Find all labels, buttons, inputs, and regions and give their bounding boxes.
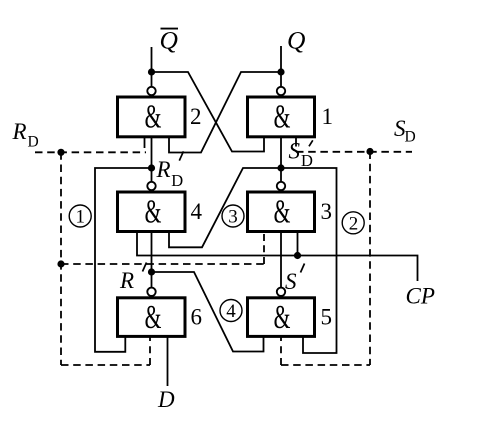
output bubble of gate 3 (277, 182, 285, 190)
wire: SD dashed vertical (right side) (369, 152, 371, 366)
node: CP junction dot (294, 252, 301, 259)
wire: RD dashed middle horizontal to gate 3 (61, 263, 264, 265)
wire: CP clock line from gate 4 left input to CP terminal (137, 232, 418, 282)
wire: SD dashed bottom horizontal (281, 364, 370, 366)
wire: RD dashed bottom horizontal (61, 364, 150, 366)
svg-text:R: R (156, 157, 171, 182)
svg-text:&: & (274, 99, 291, 136)
wire: RD dashed vertical (left side) (60, 152, 62, 365)
NAND gate U5 (box, & symbol, label 5) (248, 298, 333, 337)
wire: RD dashed horizontal line (35, 151, 146, 153)
wire: gate 1 centre input from SD' node (280, 138, 282, 168)
svg-text:D: D (301, 151, 313, 170)
svg-text:4: 4 (226, 301, 236, 322)
callout circled 2 (342, 212, 364, 235)
svg-text:3: 3 (321, 199, 333, 224)
pin: gate 3 CP input stub (297, 232, 299, 256)
wire: SD' blocking line to gate 5 right input (281, 168, 337, 353)
label SD (direct set input) (394, 116, 416, 146)
svg-text:6: 6 (191, 305, 203, 330)
output bubble of gate 6 (147, 288, 155, 296)
svg-text:2: 2 (349, 213, 359, 234)
node: SD' junction dot (277, 164, 284, 171)
wire: gate 6 output to R' node (151, 272, 153, 288)
label S' (285, 264, 305, 295)
output bubble of gate 4 (147, 182, 155, 190)
wire: gate 4 centre input from R' node (151, 232, 153, 273)
svg-text:1: 1 (75, 207, 85, 228)
wire: R' branch to gate 5 left input (152, 272, 264, 352)
pin: gate 2 RD input stub (144, 138, 146, 148)
label Q-bar (160, 26, 179, 55)
svg-text:&: & (145, 194, 162, 231)
wire: Q output terminal (280, 46, 282, 87)
NAND gate U4 (box, & symbol, label 4) (118, 192, 203, 232)
svg-text:&: & (274, 299, 291, 336)
label RD' (156, 151, 184, 190)
node: RD junction dot on dashed line (57, 149, 64, 156)
node: RD junction dot (middle branch) (57, 260, 64, 267)
svg-text:4: 4 (191, 199, 203, 224)
NAND gate U6 (box, & symbol, label 6) (118, 298, 203, 337)
NAND gate U3 (box, & symbol, label 3) (248, 192, 333, 232)
svg-text:&: & (145, 99, 162, 136)
svg-text:S: S (285, 269, 297, 294)
wire: D input to gate 6 (167, 336, 169, 386)
pin: gate 3 RD input stub (263, 231, 265, 264)
node: R' junction dot (148, 268, 155, 275)
pin: gate 5 SD input stub (280, 337, 282, 366)
wire: SD' maintain line to gate 4 right input (169, 168, 281, 247)
NAND gate U2 (box, & symbol, label 2) (118, 97, 202, 137)
svg-text:&: & (145, 299, 162, 336)
output bubble of gate 5 (277, 288, 285, 296)
pin: gate 1 SD input stub (295, 138, 297, 147)
wire: RD' branch to gate 6 left input (95, 168, 152, 352)
wire: gate 4 output to RD' node (151, 168, 153, 182)
wire: gate 2 centre input from RD' node (151, 138, 153, 168)
wire: gate 5 output to gate 3 centre input (S' line) (280, 232, 282, 288)
callout circled 1 (69, 205, 91, 228)
svg-text:1: 1 (322, 104, 334, 129)
wire: cross-couple Q-bar to gate 1 input (152, 72, 265, 152)
wire: cross-couple Q to gate 2 input (169, 72, 281, 153)
svg-text:R: R (119, 268, 134, 293)
label SD' (289, 139, 314, 171)
node: Q-bar junction dot (148, 68, 155, 75)
node: SD junction dot on dashed line (366, 148, 373, 155)
node: Q junction dot (277, 68, 284, 75)
svg-text:D: D (405, 129, 416, 146)
svg-text:Q: Q (287, 26, 305, 55)
svg-text:R: R (12, 119, 27, 144)
svg-text:&: & (274, 194, 291, 231)
output bubble of gate 2 (147, 87, 155, 95)
svg-text:D: D (157, 387, 175, 412)
svg-text:2: 2 (190, 104, 202, 129)
wire: Q-bar output terminal (151, 47, 153, 87)
output bubble of gate 1 (277, 87, 285, 95)
svg-text:3: 3 (228, 206, 238, 227)
wire: SD dashed horizontal line (296, 151, 412, 153)
svg-text:D: D (171, 171, 183, 190)
wire: gate 3 output to SD' node (280, 168, 282, 182)
NAND gate U1 (box, & symbol, label 1) (248, 97, 334, 137)
label R' (119, 263, 147, 294)
node: RD' junction dot (148, 164, 155, 171)
svg-text:Q: Q (160, 26, 178, 55)
callout circled 3 (222, 205, 244, 227)
label RD (direct reset input) (12, 119, 39, 150)
svg-text:5: 5 (321, 305, 333, 330)
svg-text:S: S (289, 139, 301, 164)
pin: gate 6 RD input stub (149, 336, 151, 365)
svg-text:CP: CP (406, 284, 435, 309)
callout circled 4 (220, 300, 242, 323)
svg-text:D: D (28, 134, 39, 151)
